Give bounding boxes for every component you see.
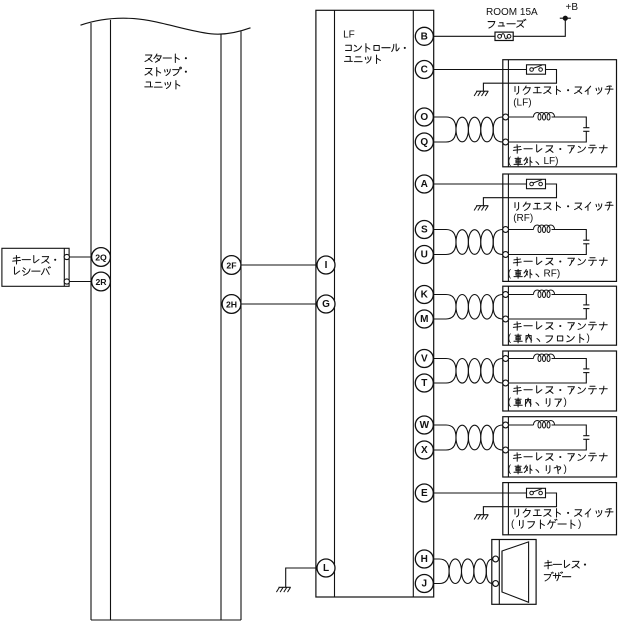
wire terminal to switch [433, 492, 526, 494]
receiver pin 2 [64, 279, 69, 284]
terminal H [415, 550, 433, 568]
terminal 2H [222, 295, 241, 314]
wire 2F to I [241, 264, 318, 266]
terminal T [415, 374, 433, 392]
request switch symbol [527, 488, 546, 497]
twisted pair H-J [433, 559, 493, 584]
keyless receiver box [2, 248, 69, 286]
terminal A [415, 175, 433, 193]
svg-text:(RF): (RF) [513, 213, 533, 224]
wire receiver pin2 to 2R [67, 281, 92, 283]
request switch / antenna box LF [503, 60, 617, 167]
svg-text:T: T [421, 378, 427, 389]
capacitor [583, 368, 589, 370]
svg-text:LF: LF [343, 30, 355, 41]
svg-text:2R: 2R [95, 277, 107, 287]
antenna coil [534, 421, 555, 429]
terminal K [415, 286, 433, 304]
request switch liftgate label [511, 509, 613, 530]
wire switch to ground [483, 70, 556, 92]
wire antenna top [506, 229, 534, 231]
wire terminal to switch [433, 183, 526, 185]
antenna pin top [503, 292, 509, 298]
svg-text:): ) [587, 333, 590, 344]
keyless buzzer label [544, 560, 586, 581]
antenna pin bottom [503, 380, 509, 386]
wire receiver pin1 to 2Q [67, 256, 92, 258]
buzzer pin 2 [493, 581, 499, 587]
fuse label [486, 7, 538, 28]
antenna coil [534, 290, 555, 298]
ground G-RF [474, 206, 488, 211]
svg-text:2Q: 2Q [95, 253, 107, 263]
keyless antenna box interior rear [503, 351, 617, 411]
terminal E [415, 484, 433, 502]
twisted pair V-T [433, 359, 503, 384]
svg-text:+B: +B [566, 2, 579, 13]
svg-text:S: S [421, 225, 428, 236]
svg-text:): ) [564, 397, 567, 408]
terminal O [415, 108, 433, 126]
wire antenna top [506, 294, 534, 296]
keyless receiver label [13, 256, 57, 276]
antenna pin bottom [503, 447, 509, 453]
antenna coil [534, 225, 555, 233]
request switch RF label [513, 202, 613, 224]
antenna pin bottom [503, 252, 509, 258]
svg-text:U: U [421, 250, 428, 261]
svg-text:A: A [421, 179, 428, 190]
request switch box liftgate [503, 483, 617, 535]
wire capacitor to bottom pin [506, 244, 587, 255]
wire L to ground [286, 568, 317, 587]
antenna coil [534, 113, 555, 121]
svg-text:G: G [322, 299, 330, 310]
terminal 2F [222, 256, 241, 275]
antenna pin top [503, 422, 509, 428]
terminal 2Q [92, 248, 111, 267]
antenna circuit exterior rear [503, 421, 590, 453]
wire coil to capacitor [552, 295, 587, 305]
start-stop unit body [81, 18, 251, 620]
svg-text:2F: 2F [226, 261, 236, 271]
+B supply [560, 2, 579, 21]
wire coil to capacitor [552, 359, 587, 369]
terminal I [317, 256, 335, 274]
antenna circuit RF [503, 225, 590, 257]
svg-text:Q: Q [420, 137, 428, 148]
twisted pair K-M [433, 295, 503, 320]
buzzer pin 1 [493, 556, 499, 562]
antenna pin top [503, 114, 509, 120]
wire antenna top [506, 358, 534, 360]
svg-text:I: I [325, 260, 328, 271]
wire 2H to G [241, 303, 318, 305]
terminal J [415, 575, 433, 593]
wire capacitor to bottom pin [506, 439, 587, 450]
svg-text:K: K [421, 290, 429, 301]
svg-text:): ) [564, 464, 567, 475]
wire capacitor to bottom pin [506, 131, 587, 142]
capacitor [583, 304, 589, 306]
capacitor [583, 435, 589, 437]
antenna circuit LF [503, 113, 590, 145]
terminal 2R [92, 272, 111, 291]
terminal C [415, 61, 433, 79]
terminal M [415, 310, 433, 328]
svg-text:L: L [323, 563, 329, 574]
svg-text:V: V [421, 354, 428, 365]
keyless antenna interior front label [508, 322, 607, 344]
svg-text:): ) [578, 519, 581, 530]
svg-text:J: J [422, 579, 428, 590]
terminal S [415, 221, 433, 239]
antenna pin bottom [503, 316, 509, 322]
receiver pin 1 [64, 254, 69, 259]
wire coil to capacitor [552, 425, 587, 436]
wire antenna top [506, 116, 534, 118]
wire capacitor to bottom pin [506, 309, 587, 319]
wire antenna top [506, 424, 534, 426]
request switch symbol [527, 179, 546, 188]
svg-text:H: H [421, 554, 428, 565]
terminal V [415, 350, 433, 368]
svg-text:LF): LF) [544, 156, 559, 167]
svg-text:B: B [421, 31, 428, 42]
LF control unit label [343, 30, 406, 64]
ground G-liftgate [474, 515, 488, 520]
buzzer speaker symbol [502, 542, 529, 602]
start-stop unit label [145, 54, 187, 89]
antenna coil [534, 354, 555, 362]
request switch symbol [527, 65, 546, 74]
twisted pair S-U [433, 230, 503, 255]
antenna circuit interior rear [503, 354, 590, 386]
request switch / antenna box RF [503, 174, 617, 281]
svg-text:X: X [421, 445, 428, 456]
antenna pin top [503, 227, 509, 233]
ground G-LF [474, 91, 488, 96]
svg-text:RF): RF) [544, 269, 561, 280]
keyless antenna RF label [508, 257, 607, 279]
svg-text:2H: 2H [226, 300, 237, 310]
request switch LF label [513, 86, 613, 108]
wire switch to ground [483, 493, 556, 515]
svg-text:C: C [421, 65, 428, 76]
terminal Q [415, 133, 433, 151]
antenna pin bottom [503, 139, 509, 145]
svg-text:E: E [421, 488, 428, 499]
terminal U [415, 246, 433, 264]
terminal G [317, 295, 335, 313]
LF control unit body [316, 10, 434, 597]
ground for L [276, 587, 290, 592]
capacitor [583, 127, 589, 129]
fuse ROOM 15A [495, 32, 513, 40]
keyless buzzer box [492, 540, 536, 605]
antenna circuit interior front [503, 290, 590, 322]
twisted pair O-Q [433, 117, 503, 142]
keyless antenna box interior front [503, 286, 617, 345]
terminal W [415, 416, 433, 434]
terminal B [415, 27, 433, 45]
terminal X [415, 441, 433, 459]
wire coil to capacitor [552, 117, 587, 128]
svg-text:W: W [420, 420, 430, 431]
keyless antenna LF label [508, 145, 607, 167]
svg-text:O: O [420, 112, 428, 123]
wire switch to ground [483, 184, 556, 206]
svg-text:M: M [420, 314, 428, 325]
svg-text:(LF): (LF) [513, 97, 531, 108]
capacitor [583, 239, 589, 241]
antenna pin top [503, 356, 509, 362]
wire B to fuse to +B [433, 18, 565, 36]
twisted pair W-X [433, 425, 503, 450]
keyless antenna interior rear label [508, 386, 607, 408]
keyless antenna box exterior rear [503, 417, 617, 477]
wire terminal to switch [433, 69, 526, 71]
wire capacitor to bottom pin [506, 373, 587, 383]
svg-text:ROOM 15A: ROOM 15A [486, 7, 538, 18]
terminal L [317, 559, 335, 577]
wire coil to capacitor [552, 230, 587, 241]
keyless antenna exterior rear label [508, 453, 607, 475]
